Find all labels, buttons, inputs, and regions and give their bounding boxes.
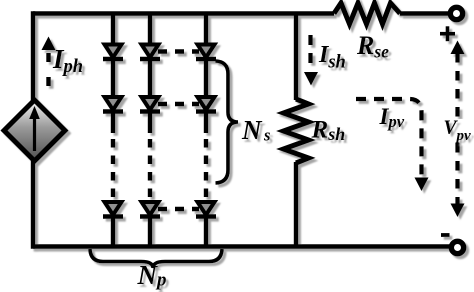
wire shunt vertical lower	[294, 162, 298, 247]
svg-text:Ns: Ns	[241, 115, 270, 145]
wire col3 dashed continuation	[204, 139, 208, 201]
dashed row link row1	[158, 49, 199, 53]
diode D2b	[140, 97, 160, 112]
resistor Rsh	[284, 99, 309, 163]
diode D1b	[103, 97, 123, 112]
diode column 2 wires	[148, 14, 152, 47]
svg-text:Rsh: Rsh	[311, 117, 346, 145]
diode D1c	[103, 202, 123, 217]
diode D1a	[103, 45, 123, 60]
minus sign	[441, 233, 450, 237]
Ipv arrow (dashed, right then down)	[356, 99, 429, 191]
svg-text:Ish: Ish	[318, 42, 346, 73]
diode D3c	[196, 202, 216, 217]
brace Ns	[216, 61, 239, 183]
svg-text:Iph: Iph	[52, 44, 83, 77]
diode D3a	[196, 45, 216, 60]
diode D2a	[140, 45, 160, 60]
diode column 3 wires	[204, 14, 208, 47]
svg-text:Np: Np	[137, 260, 167, 291]
wire left vertical lower	[31, 159, 35, 249]
Vpv arrow (dashed, double head)	[451, 41, 465, 218]
brace Np	[90, 249, 222, 268]
diode D3b	[196, 97, 216, 112]
wire shunt vertical upper	[294, 14, 298, 101]
wire top right horizontal	[400, 11, 450, 15]
wire top left horizontal	[33, 11, 334, 15]
svg-text:Ipv: Ipv	[379, 104, 405, 131]
current source I_ph (diamond)	[4, 100, 65, 161]
svg-text:Rse: Rse	[356, 31, 389, 62]
dashed row link row3	[158, 207, 199, 211]
dashed row link row2	[158, 102, 199, 106]
Ish arrow (dashed, down)	[304, 35, 318, 86]
diode column 1 wires	[111, 14, 115, 47]
label Vpv (with mask gap)	[443, 118, 474, 145]
Iph arrow (dashed, up)	[42, 37, 56, 92]
wire col1 dashed continuation	[111, 139, 115, 201]
wire col2 dashed continuation	[148, 139, 152, 201]
plus sign	[440, 26, 455, 41]
diode D2c	[140, 202, 160, 217]
terminal top right	[450, 7, 462, 19]
wire left vertical upper	[31, 11, 35, 102]
wire bottom horizontal	[33, 244, 450, 248]
resistor Rse	[334, 3, 400, 24]
terminal bottom right	[451, 241, 463, 253]
